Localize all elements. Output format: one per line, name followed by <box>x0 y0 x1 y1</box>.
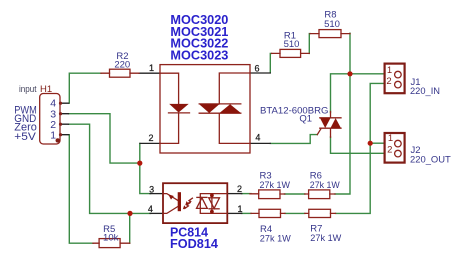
wire R5 right lead up to Zero net junction <box>129 213 131 243</box>
svg-text:FOD814: FOD814 <box>170 237 218 251</box>
R3 name label <box>260 171 272 182</box>
PC814 phototransistor <box>163 192 181 213</box>
wire GND net from H1.3 to junction <box>69 114 140 163</box>
PC814 pin 1 stub <box>227 212 242 214</box>
resistor R6 <box>305 190 335 199</box>
MOC pin 2 stub <box>140 142 160 144</box>
PC814 pin 1 number <box>237 204 242 214</box>
wire R1 to R8 <box>308 34 311 54</box>
R3 value label <box>260 180 291 191</box>
svg-text:1: 1 <box>149 63 154 73</box>
H1 pin joints <box>59 102 62 137</box>
R1 name label <box>284 31 296 42</box>
resistor R8 <box>310 30 350 38</box>
Q1 value label BTA12-600BRG <box>260 106 329 117</box>
R1 value label <box>284 39 300 50</box>
PC814 name label <box>170 226 208 240</box>
R5 name label <box>103 224 115 235</box>
J2 name label <box>411 145 421 156</box>
svg-text:6: 6 <box>254 64 259 74</box>
MOC internal triac <box>199 73 250 143</box>
PC814 pin 4 number <box>148 204 153 214</box>
H1 name label <box>40 84 52 95</box>
svg-text:1: 1 <box>387 65 392 76</box>
svg-text:510: 510 <box>324 19 340 30</box>
svg-text:input: input <box>19 84 37 94</box>
wire Zero net from H1.2 down to PC814 pin4 <box>69 124 151 213</box>
H1 pin function labels <box>14 104 37 143</box>
svg-text:MOC3023: MOC3023 <box>170 49 228 63</box>
wire MOC pin6 up to R1 <box>270 53 271 72</box>
svg-text:220_OUT: 220_OUT <box>410 155 451 166</box>
PC814 back-to-back LEDs <box>197 194 228 214</box>
svg-text:10k: 10k <box>103 232 119 243</box>
J1 pin 2 number <box>386 76 391 87</box>
connector J1 <box>385 64 405 94</box>
MOC pin 4 number <box>255 133 260 143</box>
svg-text:+5V: +5V <box>14 131 36 143</box>
J1 name label <box>411 77 421 88</box>
svg-text:1: 1 <box>50 129 56 141</box>
R4 value label <box>260 234 291 245</box>
svg-text:1: 1 <box>237 204 242 214</box>
wire J1 pin2 down through J2 pin1 to R7 <box>336 83 385 213</box>
svg-text:BTA12-600BRG: BTA12-600BRG <box>260 106 329 117</box>
PC814 pin 4 stub <box>150 212 163 214</box>
junction node net B at J2 pin1 <box>368 141 373 146</box>
junction node GND net <box>137 161 142 166</box>
R8 name label <box>324 9 336 20</box>
PC814 pin 2 stub <box>227 193 242 195</box>
connector H1 <box>40 94 60 145</box>
MOC pin 1 number <box>149 63 154 73</box>
svg-text:2: 2 <box>387 145 392 156</box>
PC814 pin 3 number <box>149 184 154 194</box>
R2 name label <box>116 51 128 62</box>
J1 pin 1 number <box>387 65 392 76</box>
J2 pin 2 number <box>387 145 392 156</box>
wire PWM net from H1.4 up to R2 <box>69 73 101 103</box>
svg-text:220: 220 <box>114 60 130 71</box>
wire +5V net from H1.1 down to R5 <box>69 135 94 244</box>
MOC pin 6 number <box>254 64 259 74</box>
svg-text:1: 1 <box>388 133 393 144</box>
R5 value label <box>103 232 119 243</box>
R2 value label <box>114 60 130 71</box>
svg-text:510: 510 <box>284 39 300 50</box>
svg-text:2: 2 <box>148 133 153 143</box>
J2 pin 1 number <box>388 133 393 144</box>
svg-text:27k 1W: 27k 1W <box>260 180 291 191</box>
MOC type labels <box>170 13 228 63</box>
MOC pin 2 number <box>148 133 153 143</box>
svg-text:Q1: Q1 <box>299 114 312 125</box>
svg-text:4: 4 <box>148 204 153 214</box>
MOC pin 4 stub <box>250 142 270 144</box>
R4 name label <box>260 224 272 235</box>
resistor R1 <box>272 49 310 57</box>
svg-text:2: 2 <box>237 184 242 194</box>
svg-text:2: 2 <box>386 76 391 87</box>
PC814 pin 3 stub <box>150 193 163 195</box>
resistor R5 <box>93 239 130 248</box>
junction node Zero net at PC814 pin4 <box>127 211 132 216</box>
MOC pin 1 stub <box>139 72 160 74</box>
R6 value label <box>310 180 340 191</box>
resistor R4 <box>251 209 285 217</box>
wire R3 to R6 <box>285 193 305 195</box>
H1 pin numbers <box>50 97 56 141</box>
Q1 name label <box>299 114 312 125</box>
R8 value label <box>324 19 340 30</box>
wire Q1 MT1 to J2 pin2 <box>331 137 385 153</box>
svg-text:27k 1W: 27k 1W <box>310 180 340 191</box>
resistor R3 <box>250 190 285 199</box>
wire R8 right to net A vertical down to R6 <box>335 33 350 194</box>
PC814 pin 2 number <box>237 184 242 194</box>
svg-text:3: 3 <box>149 184 154 194</box>
wire MOC pin4 to Q1 gate <box>270 135 317 144</box>
H1 pin stubs <box>60 103 69 135</box>
triac Q1 <box>317 112 341 138</box>
opto coupler PC814 box <box>163 183 227 223</box>
connector J2 <box>385 133 405 163</box>
wire R4 to R7 <box>285 212 305 214</box>
wire net A horizontal to J1 pin1 and Q1 MT2 <box>331 74 385 113</box>
svg-text:27k 1W: 27k 1W <box>310 233 341 244</box>
resistor R7 <box>305 209 336 217</box>
R7 value label <box>310 233 341 244</box>
J2 value label <box>410 155 451 166</box>
wire PC814 pin1 to R4 <box>242 212 252 214</box>
R6 name label <box>310 171 322 182</box>
svg-text:220_IN: 220_IN <box>410 86 440 97</box>
op-to coupler MOC U1 box <box>160 65 250 153</box>
wire PC814 pin2 to R3 <box>242 193 252 195</box>
input label <box>19 84 37 94</box>
PC814 light arrows <box>183 198 193 209</box>
junction node on net A at R8 <box>347 71 352 76</box>
svg-text:27k 1W: 27k 1W <box>260 234 291 245</box>
svg-text:H1: H1 <box>40 84 52 95</box>
FOD814 name label <box>170 237 218 251</box>
wire MOC pin2 / PC814 pin3 vertical <box>140 143 151 193</box>
MOC internal LED <box>160 73 190 143</box>
MOC pin 6 stub <box>250 72 270 74</box>
resistor R2 <box>101 69 139 77</box>
J1 value label <box>410 86 440 97</box>
svg-text:4: 4 <box>255 133 260 143</box>
wire J2 pin1 stub <box>370 142 384 144</box>
R7 name label <box>310 223 322 234</box>
